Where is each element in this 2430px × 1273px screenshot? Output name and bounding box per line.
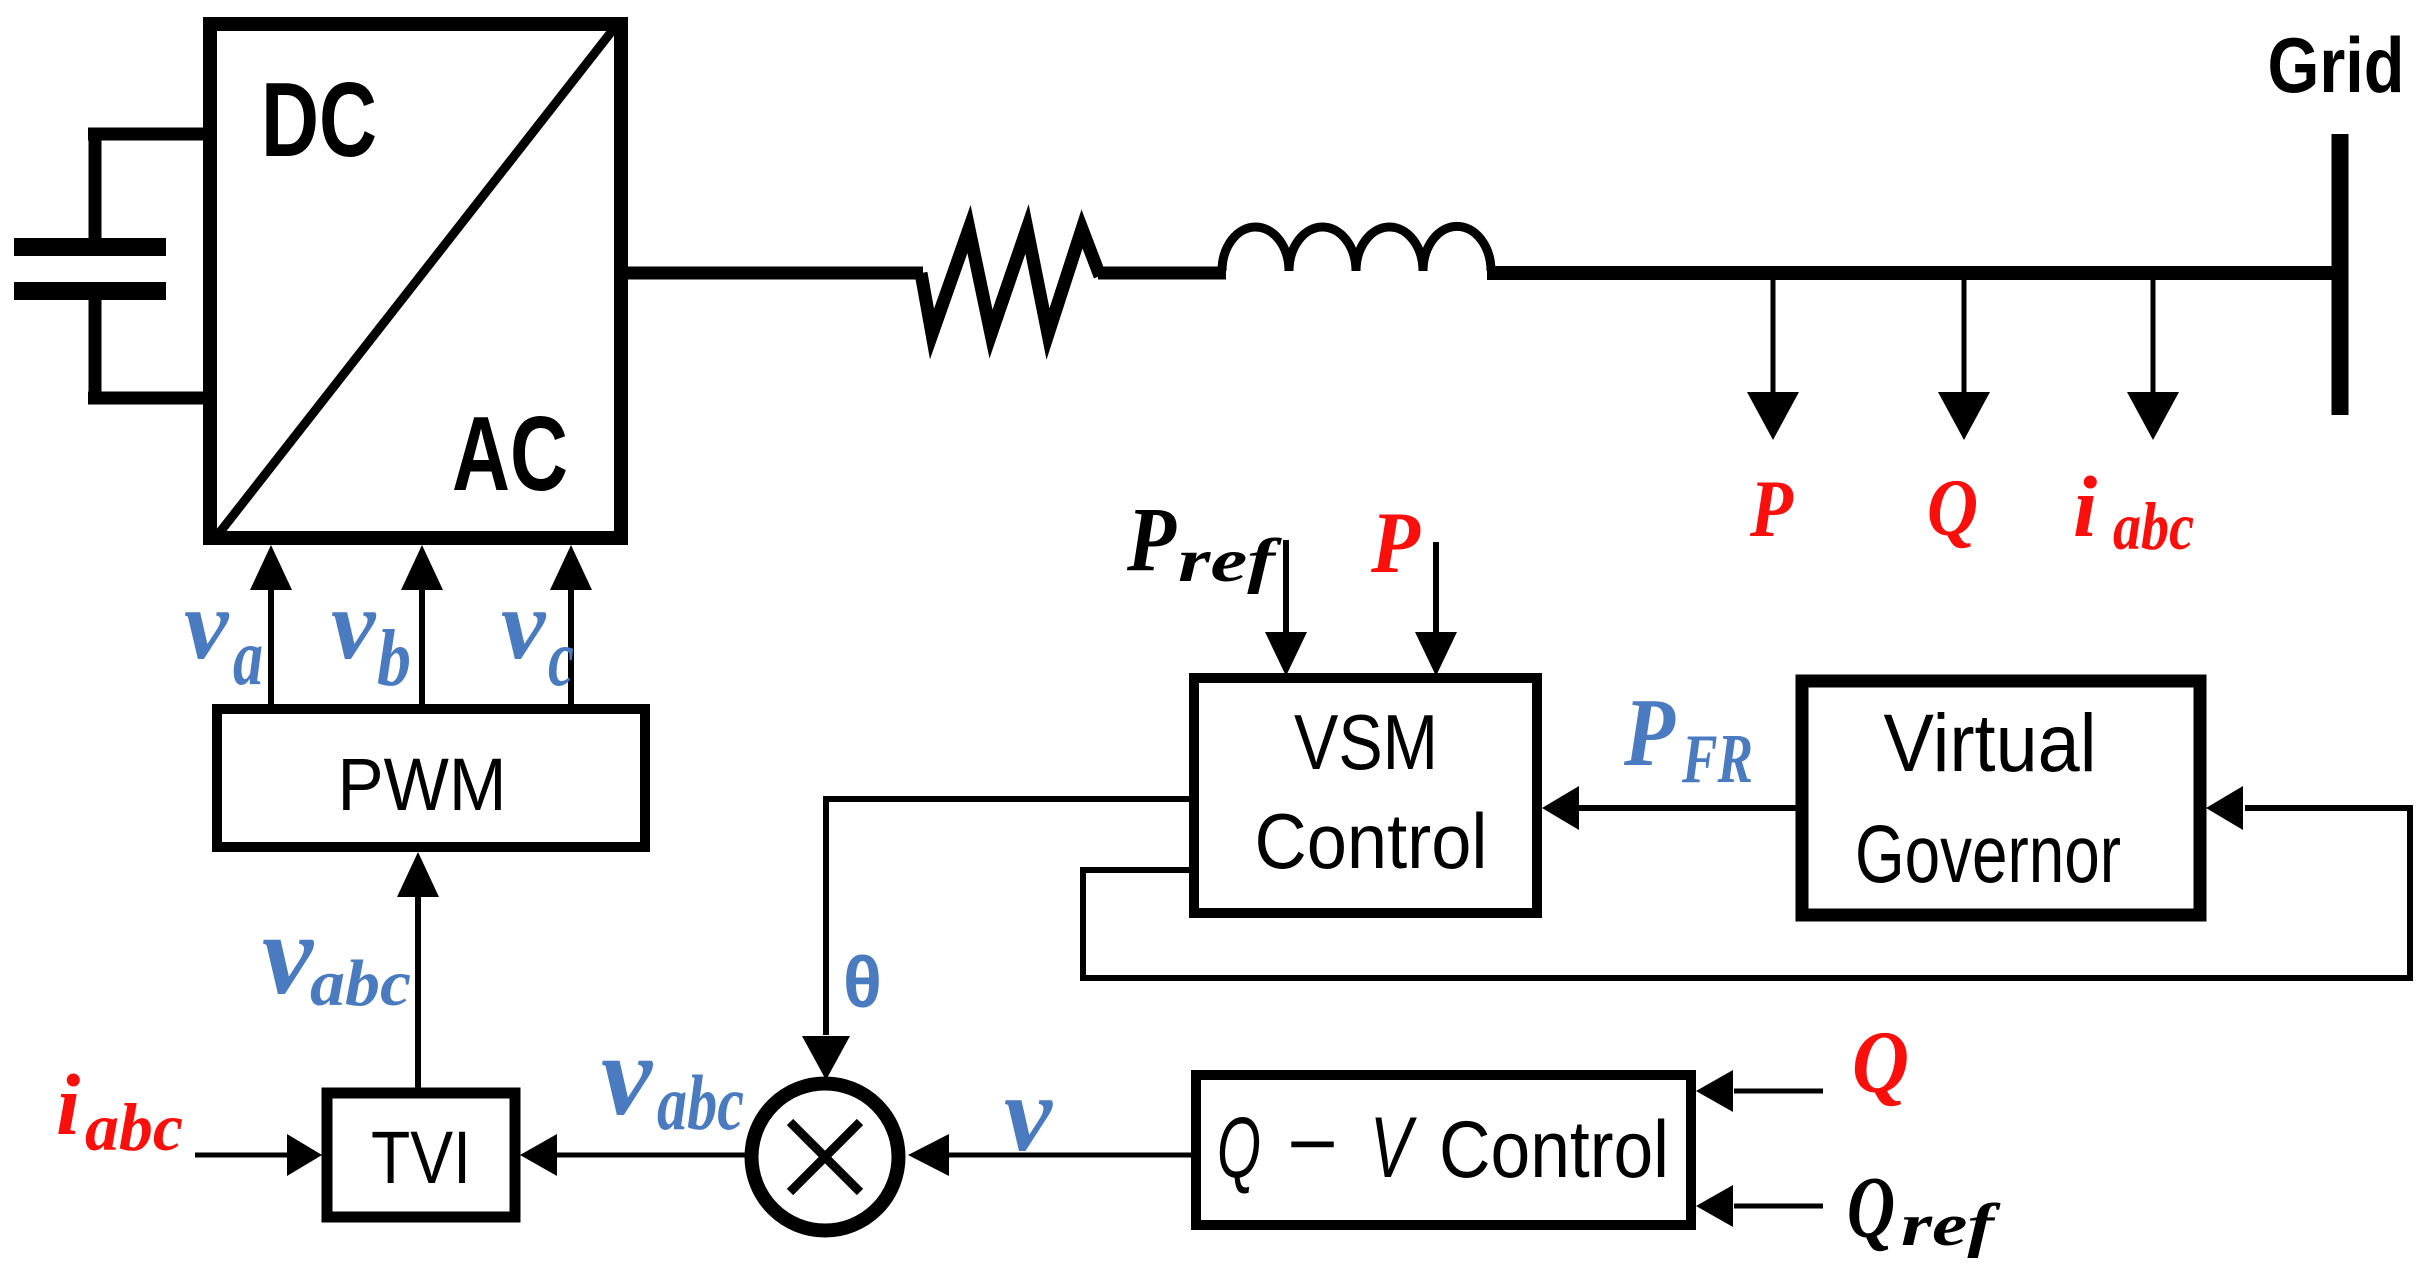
multiplier (x) [752, 1084, 899, 1231]
svg-text:Governor: Governor [1855, 809, 2121, 900]
svg-text:Q: Q [1847, 1160, 1895, 1257]
resistor R [921, 229, 1100, 334]
gate arrow v_a [268, 586, 274, 704]
svg-text:Control: Control [1255, 797, 1488, 885]
converter block DC/AC [210, 24, 621, 538]
TVI box [327, 1093, 515, 1217]
svg-text:Q: Q [1217, 1100, 1261, 1196]
svg-text:Grid: Grid [2268, 21, 2405, 109]
VSM Control box [1194, 678, 1537, 913]
svg-text:−: − [1287, 1099, 1338, 1188]
wire inductor to grid bus [1487, 266, 2341, 280]
svg-text:Q: Q [1852, 1014, 1909, 1112]
svg-text:θ: θ [843, 943, 882, 1023]
svg-text:v: v [184, 569, 230, 680]
converter diagonal [213, 22, 619, 541]
arrow Q into Q-V Control [1734, 1089, 1823, 1094]
inductor L [1222, 226, 1491, 271]
arrow Virtual Governor to VSM Control [1578, 805, 1796, 811]
svg-text:a: a [233, 614, 263, 702]
svg-text:v: v [601, 1012, 654, 1139]
feedback wire VSM Control to Virtual Governor [1083, 808, 2410, 978]
svg-text:Q: Q [1927, 462, 1978, 553]
PWM box [217, 709, 645, 847]
Virtual Governor box [1802, 681, 2200, 915]
svg-text:i: i [2073, 458, 2097, 555]
theta wire from VSM Control [826, 799, 1189, 1035]
svg-text:P: P [1623, 679, 1675, 786]
arrow P into VSM Control [1433, 542, 1439, 634]
svg-text:PWM: PWM [338, 743, 507, 826]
svg-text:DC: DC [261, 61, 377, 179]
arrow Q_ref into Q-V Control [1734, 1204, 1823, 1209]
svg-text:v: v [501, 569, 547, 680]
svg-text:P: P [1370, 495, 1421, 592]
svg-text:b: b [377, 615, 411, 703]
arrowhead theta into multiplier [802, 1036, 850, 1080]
wire resistor to inductor [1098, 267, 1226, 280]
svg-text:TVI: TVI [371, 1116, 471, 1199]
svg-text:v: v [1004, 1055, 1053, 1174]
measurement arrow P (bus) [1771, 278, 1776, 394]
arrowhead feedback into Virtual Governor [2206, 786, 2243, 830]
svg-text:c: c [548, 615, 574, 703]
svg-text:v: v [262, 891, 315, 1018]
Q-V Control box [1196, 1075, 1691, 1225]
svg-text:ref: ref [1901, 1192, 2001, 1258]
grid bus bar [2332, 134, 2349, 415]
svg-text:ref: ref [1178, 528, 1283, 595]
svg-text:Virtual: Virtual [1884, 698, 2097, 789]
arrow v from Q-V Control to multiplier [948, 1153, 1191, 1158]
svg-text:i: i [56, 1056, 80, 1153]
gate arrow v_c [568, 586, 574, 704]
svg-text:FR: FR [1681, 721, 1753, 798]
svg-text:AC: AC [452, 395, 568, 513]
svg-text:P: P [1749, 463, 1794, 554]
wire converter to resistor [621, 267, 923, 280]
svg-text:abc: abc [85, 1089, 183, 1165]
svg-text:P: P [1126, 488, 1177, 590]
svg-text:V: V [1370, 1100, 1418, 1196]
svg-text:abc: abc [310, 947, 411, 1020]
arrow multiplier to TVI [556, 1153, 745, 1158]
svg-text:Control: Control [1439, 1105, 1669, 1195]
arrow v_abc into PWM [415, 893, 421, 1088]
arrow P_ref into VSM Control [1283, 540, 1289, 634]
svg-text:v: v [331, 569, 377, 680]
svg-text:abc: abc [2113, 488, 2194, 564]
arrow i_abc into TVI [195, 1153, 290, 1158]
measurement arrow Q (bus) [1962, 278, 1967, 394]
measurement arrow i_abc (bus) [2151, 278, 2156, 394]
svg-text:VSM: VSM [1294, 698, 1438, 786]
capacitor C (DC link) [14, 128, 210, 404]
gate arrow v_b [419, 586, 425, 704]
svg-text:abc: abc [657, 1059, 744, 1146]
